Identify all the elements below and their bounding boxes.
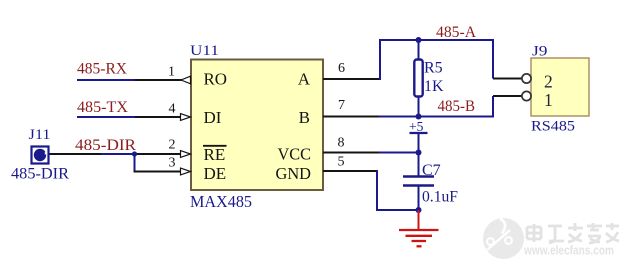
svg-text:A: A — [298, 70, 311, 89]
svg-text:485-DIR: 485-DIR — [11, 166, 70, 183]
svg-text:1: 1 — [544, 90, 553, 110]
svg-text:J11: J11 — [29, 127, 51, 143]
svg-text:1K: 1K — [424, 78, 444, 95]
svg-text:C7: C7 — [422, 162, 441, 179]
svg-text:2: 2 — [544, 72, 553, 92]
svg-text:+5: +5 — [409, 119, 424, 134]
svg-text:GND: GND — [276, 164, 312, 183]
svg-text:U11: U11 — [190, 43, 219, 59]
svg-text:485-RX: 485-RX — [77, 61, 127, 78]
svg-text:7: 7 — [338, 98, 345, 113]
svg-text:R5: R5 — [424, 60, 443, 77]
svg-text:RO: RO — [204, 70, 228, 89]
svg-text:1: 1 — [168, 65, 175, 80]
svg-text:DE: DE — [204, 164, 227, 183]
svg-text:DI: DI — [204, 108, 222, 127]
svg-text:6: 6 — [338, 61, 345, 76]
svg-text:0.1uF: 0.1uF — [422, 189, 458, 206]
svg-text:RS485: RS485 — [531, 119, 575, 135]
svg-text:8: 8 — [338, 136, 345, 151]
svg-text:VCC: VCC — [278, 145, 312, 164]
svg-text:485-DIR: 485-DIR — [75, 137, 137, 154]
svg-text:485-TX: 485-TX — [77, 99, 128, 116]
svg-text:B: B — [299, 108, 310, 127]
svg-text:MAX485: MAX485 — [190, 192, 252, 211]
svg-text:4: 4 — [169, 102, 176, 117]
svg-text:RE: RE — [204, 145, 226, 164]
svg-text:3: 3 — [169, 156, 176, 171]
svg-text:www.elecfans.com: www.elecfans.com — [523, 244, 614, 258]
svg-text:2: 2 — [169, 138, 176, 153]
svg-text:485-A: 485-A — [436, 24, 477, 41]
svg-text:5: 5 — [338, 155, 345, 170]
svg-text:J9: J9 — [532, 43, 548, 59]
svg-text:485-B: 485-B — [438, 98, 476, 115]
